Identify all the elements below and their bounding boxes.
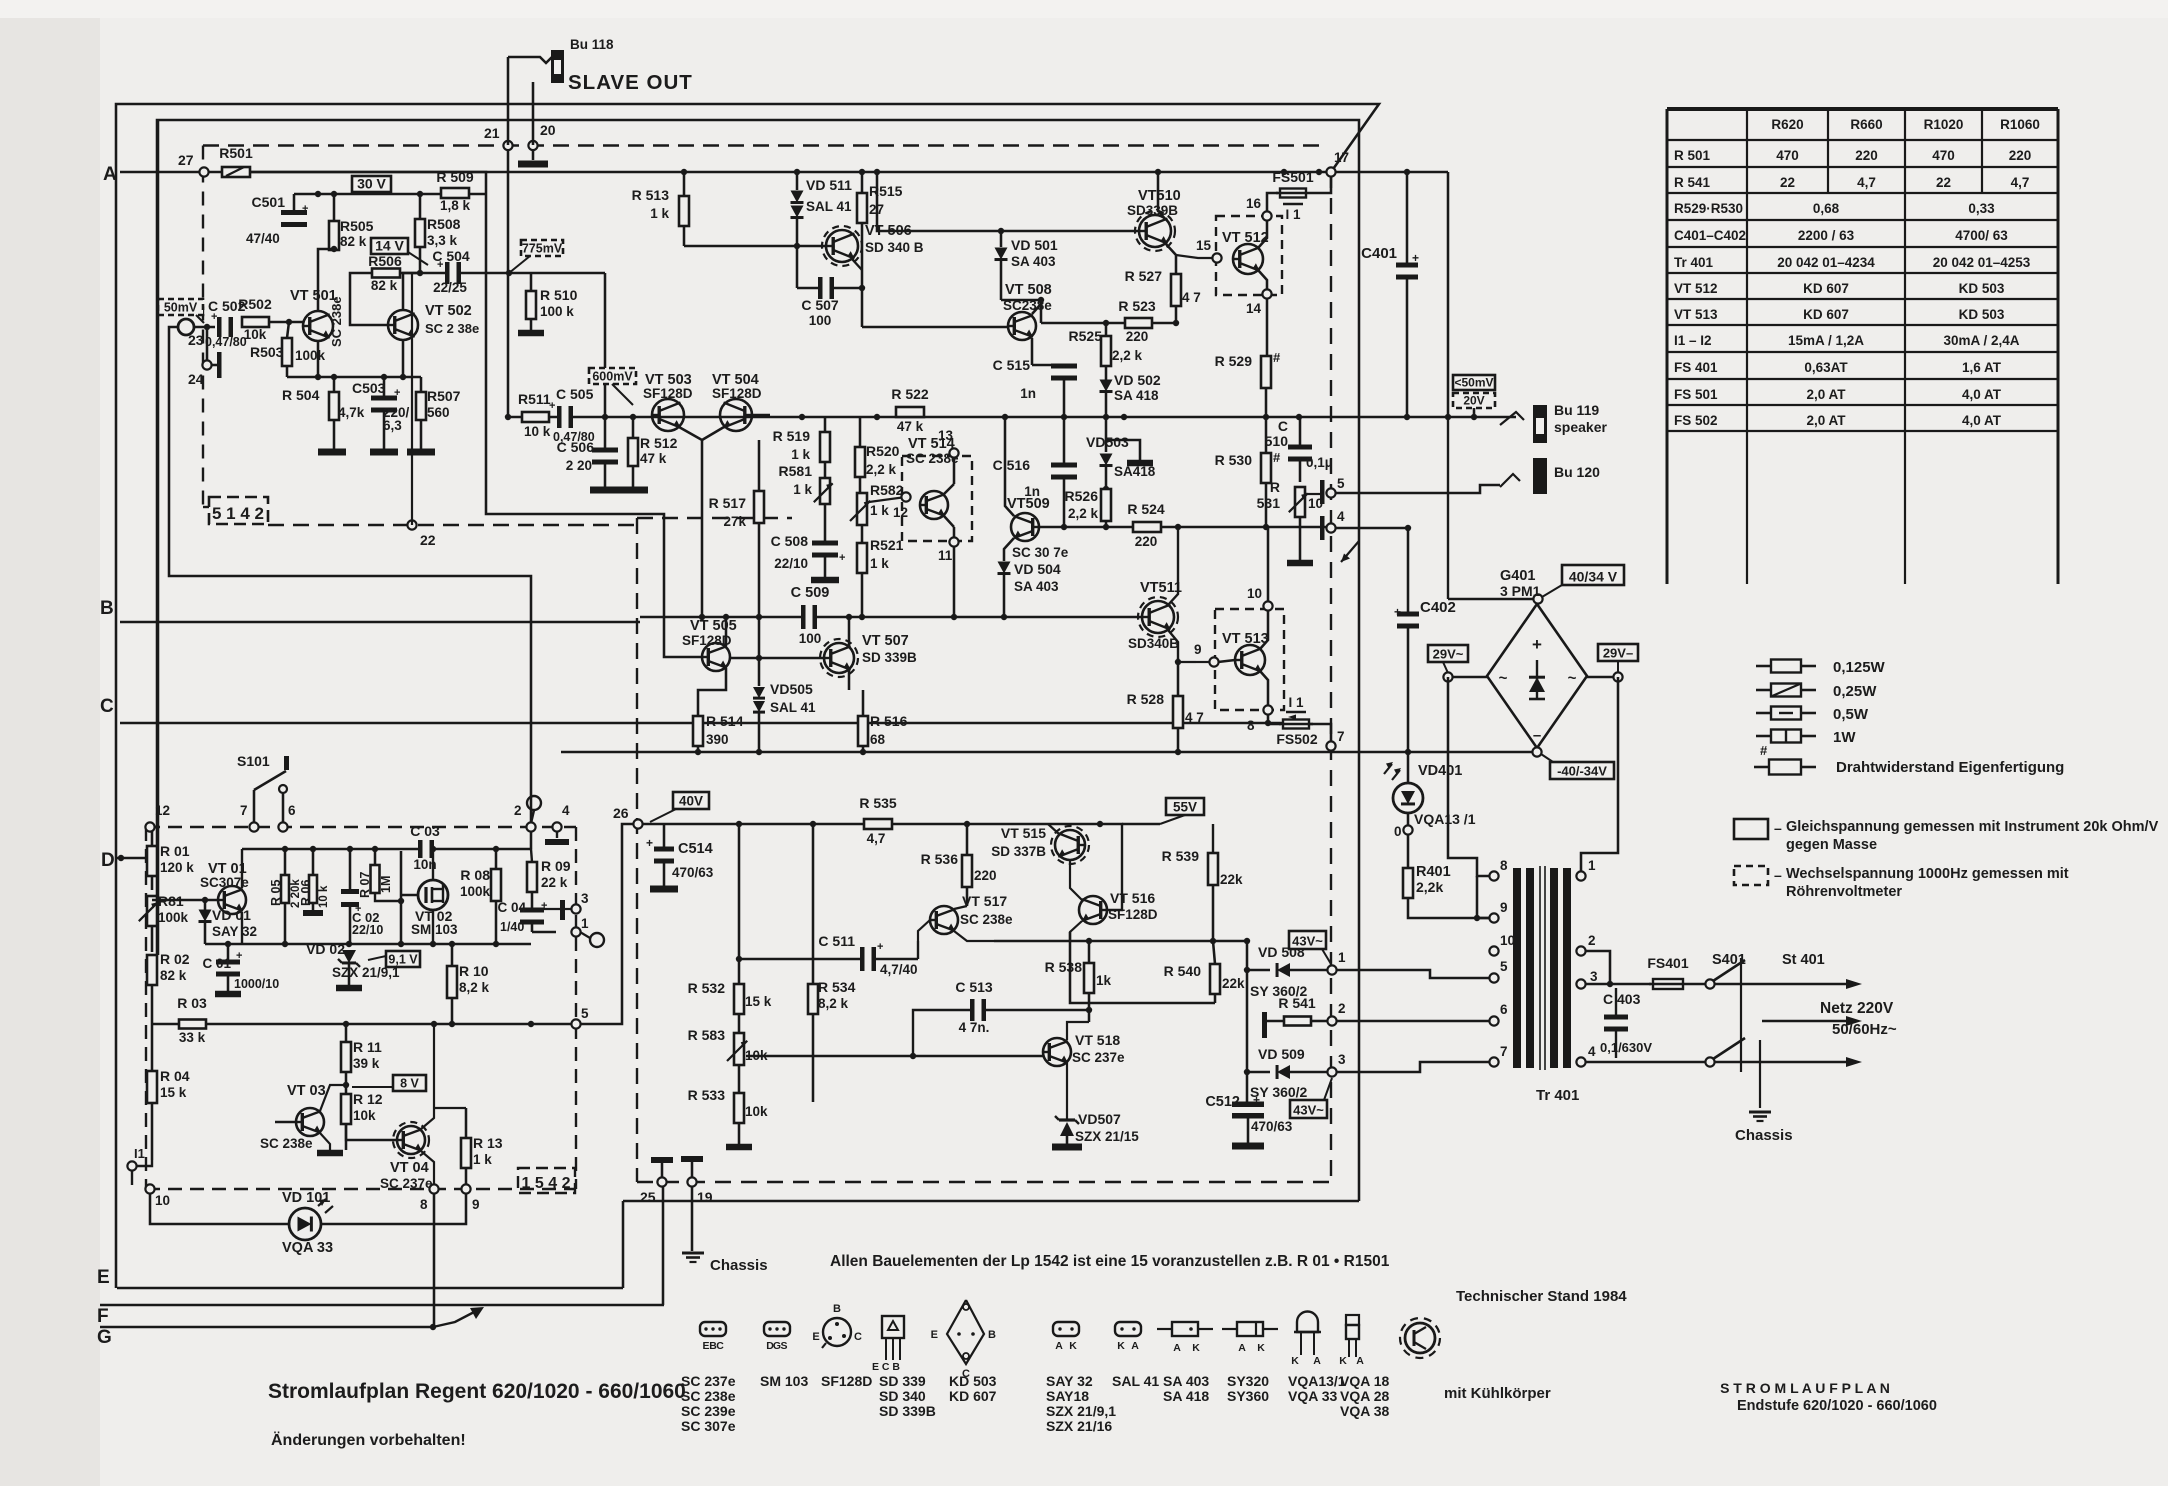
voltage box 50mV at speaker (1453, 375, 1495, 390)
svg-text:24: 24 (188, 371, 204, 387)
node 9 (1209, 657, 1218, 666)
svg-text:SC 2 38e: SC 2 38e (425, 321, 479, 336)
wire A to inner corner (250, 172, 486, 194)
wire VT506 base line (684, 245, 826, 248)
node 27 on bus A (199, 167, 208, 176)
wire node5-1542 route (580, 824, 634, 1024)
svg-text:VT509: VT509 (1007, 496, 1050, 512)
wire R02 bottom (151, 985, 154, 1024)
legend box Wechselspannung dashed (1734, 866, 1768, 885)
svg-text:R 529: R 529 (1215, 353, 1253, 369)
capacitor C403 (1604, 1020, 1628, 1027)
svg-text:A: A (1356, 1355, 1364, 1367)
svg-text:4,0 AT: 4,0 AT (1962, 387, 2002, 402)
wire C513 right (985, 1009, 1089, 1011)
resistor R523 (1125, 318, 1152, 328)
wire VT01 collector top (241, 849, 243, 888)
svg-text:4: 4 (1588, 1044, 1596, 1059)
svg-text:R 07: R 07 (358, 872, 372, 898)
wire x158 frame vertical (157, 120, 160, 955)
svg-text:SA 403: SA 403 (1014, 579, 1059, 594)
svg-text:VT510: VT510 (1138, 188, 1181, 204)
wire node10 to VD101 (150, 1193, 290, 1224)
wire bus B line (120, 621, 640, 624)
svg-text:1/40: 1/40 (500, 920, 524, 934)
node 19 (687, 1177, 696, 1186)
svg-text:39 k: 39 k (353, 1056, 380, 1071)
svg-text:+: + (394, 387, 400, 399)
wire 29V~ left col to pin8 (1448, 677, 1489, 876)
resistor R525 (1101, 336, 1111, 366)
svg-text:0,33: 0,33 (1968, 201, 1995, 216)
svg-text:Wechselspannung 1000Hz gemes: Wechselspannung 1000Hz gemessen mit (1786, 866, 2069, 882)
wire input node23 to feedback route (169, 327, 531, 822)
resistor R510 (526, 291, 536, 319)
node 15 (1212, 253, 1221, 262)
connector pin bar R541 (1262, 1012, 1267, 1038)
capacitor C510 (1288, 450, 1312, 457)
voltage box 775mV dashed (521, 240, 563, 256)
ground under VD507 (1052, 1144, 1082, 1151)
wire F to node25 column (662, 1186, 665, 1305)
wire node21 vertical to main bus (507, 150, 510, 417)
wire main bus y417 (509, 416, 1516, 419)
wire VD01 bottom line (241, 912, 243, 944)
svg-text:-40/-34V: -40/-34V (1557, 764, 1607, 779)
Tr401 pin9 (1489, 913, 1498, 922)
svg-text:SC 237e: SC 237e (681, 1373, 736, 1389)
svg-text:8: 8 (420, 1197, 428, 1212)
svg-text:I 1: I 1 (1285, 207, 1301, 222)
resistor R401 (1403, 868, 1413, 898)
svg-text:22k: 22k (1222, 976, 1245, 991)
svg-text:VT 515: VT 515 (1001, 825, 1046, 841)
svg-text:SZX 21/15: SZX 21/15 (1075, 1129, 1139, 1144)
svg-text:VT 513: VT 513 (1674, 307, 1718, 322)
voltage box 9,1V (386, 951, 420, 967)
svg-text:SC 238e: SC 238e (681, 1388, 736, 1404)
wire Bu118 jack tip to node21 column (508, 57, 552, 63)
svg-text:VT 04: VT 04 (390, 1160, 429, 1176)
wire VT04 collector to R13 (434, 1107, 466, 1109)
switch S401 upper blade (1713, 960, 1745, 981)
wire second frame line (157, 120, 1359, 955)
wire 40V rail (638, 823, 1100, 826)
resistor R529 (1261, 356, 1271, 388)
svg-text:R: R (1270, 479, 1280, 495)
svg-text:R 513: R 513 (632, 187, 670, 203)
voltage box 40/34V (1562, 565, 1624, 585)
wire pin9 link (1477, 917, 1489, 920)
board 55xx dashed bottom edge (637, 1181, 1331, 1183)
svg-text:FS 502: FS 502 (1674, 413, 1718, 428)
diode VD507 zener (1060, 1122, 1074, 1136)
svg-text:4 7n.: 4 7n. (959, 1020, 990, 1035)
svg-text:100 k: 100 k (540, 304, 574, 319)
svg-text:C 515: C 515 (993, 357, 1031, 373)
wire zener line y944 (205, 943, 531, 946)
wire VT506 emitter down (852, 259, 862, 270)
wire 40V pointer (650, 809, 676, 822)
svg-text:1M: 1M (379, 876, 393, 893)
svg-text:10k: 10k (353, 1108, 376, 1123)
resistor R535 (864, 819, 892, 829)
wire VD401 column top (1407, 752, 1410, 784)
resistor R516 (858, 716, 868, 746)
voltage box 30V (352, 176, 391, 192)
svg-text:R 02: R 02 (160, 951, 190, 967)
svg-text:R 517: R 517 (709, 495, 747, 511)
svg-text:8,2 k: 8,2 k (459, 980, 490, 995)
node 14 (1262, 289, 1271, 298)
svg-text:R 536: R 536 (921, 851, 959, 867)
wire R540 bottom to VT516 collector (1214, 994, 1217, 1003)
ground under R504 (318, 449, 346, 456)
wire VT504 collector to bus (752, 414, 770, 417)
svg-text:C 516: C 516 (993, 457, 1031, 473)
svg-text:C: C (1278, 418, 1288, 434)
node 9 bottom (461, 1184, 470, 1193)
svg-text:+: + (549, 400, 555, 412)
svg-text:–: – (1774, 820, 1782, 836)
node 10 (1263, 601, 1272, 610)
svg-text:22/10: 22/10 (774, 556, 808, 571)
svg-text:SY320: SY320 (1227, 1373, 1269, 1389)
svg-text:VD 511: VD 511 (806, 177, 852, 193)
wire bus C line (120, 722, 1283, 725)
svg-text:R 533: R 533 (688, 1087, 726, 1103)
svg-text:R515: R515 (869, 183, 903, 199)
node 0 (1407, 813, 1410, 826)
wire node 24 branch (206, 327, 209, 365)
wire VT02 drain up (432, 849, 434, 880)
connector pin bar at node4 (1320, 516, 1325, 540)
svg-text:47 k: 47 k (897, 419, 924, 434)
connector pin bar at node5 (1320, 480, 1325, 504)
svg-text:SD339B: SD339B (1127, 203, 1178, 218)
wire VT03 emitter (320, 1133, 330, 1150)
svg-text:Änderungen vorbehalten!: Änderungen vorbehalten! (271, 1431, 466, 1449)
svg-text:22/25: 22/25 (433, 280, 467, 295)
capacitor C506 (592, 453, 618, 460)
svg-text:0,25W: 0,25W (1833, 683, 1877, 700)
svg-text:1: 1 (581, 916, 589, 931)
svg-text:+: + (437, 259, 443, 271)
label I1 above FS502 (1286, 711, 1306, 714)
wire VT511 collector down (1168, 630, 1178, 658)
svg-text:23: 23 (188, 332, 204, 348)
svg-text:R529·R530: R529·R530 (1674, 201, 1743, 216)
Tr401 pin6 (1489, 1016, 1498, 1025)
svg-text:2,0 AT: 2,0 AT (1806, 387, 1846, 402)
wire node20 ground stem (532, 150, 535, 160)
node 12 on VT514 box (901, 492, 910, 501)
svg-text:1k: 1k (1096, 973, 1112, 988)
svg-text:R 523: R 523 (1118, 298, 1156, 314)
svg-text:1 k: 1 k (793, 482, 812, 497)
svg-text:47/40: 47/40 (246, 231, 280, 246)
board 55xx dashed right edge (1330, 172, 1332, 1182)
resistor R524 (1133, 522, 1161, 532)
wire FS502 to node7 (1309, 724, 1331, 741)
resistor R12 (341, 1094, 351, 1124)
svg-text:SA 418: SA 418 (1163, 1388, 1209, 1404)
Tr401 pin7 (1489, 1057, 1498, 1066)
svg-text:2,2 k: 2,2 k (1068, 506, 1099, 521)
svg-text:30 V: 30 V (357, 176, 386, 192)
svg-text:B: B (988, 1329, 996, 1341)
ground under R510 (518, 330, 544, 337)
svg-text:#: # (1273, 450, 1281, 465)
legend resistor 0,125W (1756, 665, 1771, 668)
capacitor C508 (812, 546, 838, 553)
wire 30V-rail feedback to VT505 (486, 194, 676, 657)
svg-text:3: 3 (1590, 969, 1598, 984)
legend resistor 0,5W (1756, 712, 1771, 715)
svg-text:VT 516: VT 516 (1110, 890, 1155, 906)
svg-text:4700/ 63: 4700/ 63 (1955, 228, 2008, 243)
svg-text:Drahtwiderstand Eigenfertigung: Drahtwiderstand Eigenfertigung (1836, 759, 2064, 776)
resistor R06 (309, 875, 317, 903)
resistor R506 (372, 269, 400, 278)
wire R506 left to VT502 base (350, 273, 389, 325)
transistor VT513 (1235, 645, 1265, 675)
label I1 under FS501 (1283, 203, 1303, 206)
svg-text:VT 513: VT 513 (1222, 631, 1269, 647)
svg-text:R 03: R 03 (177, 995, 207, 1011)
wire VT513 emitter to node8 (1260, 671, 1268, 706)
svg-text:SZX 21/9,1: SZX 21/9,1 (1046, 1403, 1116, 1419)
ground under R507 (407, 449, 435, 456)
legend resistor 0,25W (1756, 689, 1771, 692)
ground under C01 (215, 991, 241, 998)
svg-text:15 k: 15 k (160, 1085, 187, 1100)
wire node22 vertical link (411, 273, 413, 525)
svg-text:10k: 10k (244, 327, 267, 342)
svg-text:5 1 4 2: 5 1 4 2 (212, 504, 264, 523)
svg-text:R 527: R 527 (1125, 268, 1163, 284)
voltage box 20V dashed (1453, 393, 1495, 408)
svg-text:4,7k: 4,7k (338, 405, 365, 420)
wire node3 bar link (537, 908, 560, 910)
wire VD101 to node9 col (321, 1193, 466, 1224)
switch S401 lower blade (1713, 1038, 1745, 1059)
svg-text:5: 5 (1500, 959, 1508, 974)
svg-text:Technischer Stand 1984: Technischer Stand 1984 (1456, 1288, 1627, 1305)
svg-text:15 k: 15 k (745, 994, 772, 1009)
voltage box 29V~ left (1428, 645, 1468, 662)
svg-text:Bu 120: Bu 120 (1554, 464, 1600, 480)
svg-text:50mV: 50mV (164, 301, 198, 315)
bridge rectifier G401 diamond (1487, 604, 1587, 748)
svg-text:R 539: R 539 (1162, 848, 1200, 864)
svg-text:510: 510 (1265, 433, 1289, 449)
svg-text:R 583: R 583 (688, 1027, 726, 1043)
resistor R540 (1210, 964, 1220, 994)
svg-text:C 505: C 505 (556, 386, 594, 402)
svg-text:R 08: R 08 (460, 867, 490, 883)
capacitor C401 (1396, 268, 1418, 275)
svg-text:R1060: R1060 (2000, 117, 2040, 132)
svg-text:R503: R503 (250, 344, 284, 360)
wire node0 to R401 (1407, 834, 1410, 868)
svg-text:470/63: 470/63 (1251, 1119, 1293, 1134)
svg-text:R 535: R 535 (859, 795, 897, 811)
svg-text:–: – (1774, 867, 1782, 883)
wire VT03 base (275, 1121, 296, 1124)
legend package SAL41 (1115, 1322, 1141, 1336)
legend package SD339 TO126 (882, 1316, 904, 1338)
wire C504 right along y273 (459, 272, 605, 275)
svg-text:F: F (97, 1306, 109, 1327)
wire R529 to bus (1265, 388, 1268, 417)
svg-text:220: 220 (1126, 329, 1149, 344)
resistor R539 (1208, 853, 1218, 885)
node 22 on 5142 bottom (407, 520, 416, 529)
svg-text:SY360: SY360 (1227, 1388, 1269, 1404)
node 13 on VT514 box (949, 448, 958, 457)
svg-text:E: E (931, 1329, 938, 1341)
voltage box 43V~ upper (1289, 931, 1326, 949)
wire R534 bottom (812, 1014, 815, 1102)
svg-text:SC 238e: SC 238e (329, 296, 344, 347)
svg-text:C 506: C 506 (557, 439, 595, 455)
svg-text:<50mV: <50mV (1454, 376, 1493, 390)
wire VT516 collector up (1070, 921, 1082, 940)
board 5142 label box (209, 497, 268, 524)
wire input to C502 (194, 326, 215, 329)
svg-text:40V: 40V (679, 794, 703, 809)
wire node2 to Tr pin6 (1336, 1020, 1489, 1023)
svg-text:100k: 100k (460, 884, 491, 899)
svg-text:0,125W: 0,125W (1833, 659, 1886, 676)
wire C04 to node1 area (532, 931, 556, 933)
dashed box VT512 (1216, 216, 1282, 295)
resistor R13 (461, 1138, 471, 1168)
svg-text:C: C (854, 1331, 862, 1343)
svg-text:43V~: 43V~ (1292, 934, 1323, 949)
svg-text:2 20: 2 20 (566, 458, 592, 473)
ground under R06 (303, 910, 323, 916)
svg-text:SAY 32: SAY 32 (212, 924, 257, 939)
wire R05 stems (284, 849, 287, 875)
svg-text:R520: R520 (866, 443, 900, 459)
svg-text:C401: C401 (1361, 245, 1397, 262)
Tr401 pin1 (1576, 871, 1585, 880)
svg-text:Chassis: Chassis (710, 1257, 768, 1274)
svg-text:4,7/40: 4,7/40 (880, 962, 918, 977)
svg-text:R 12: R 12 (353, 1091, 383, 1107)
svg-text:1 k: 1 k (791, 447, 810, 462)
wire VT513 collector to node10 (1260, 610, 1268, 649)
capacitor C504 (450, 262, 457, 284)
svg-text:C 03: C 03 (410, 823, 440, 839)
board 1542 dashed bottom edge (146, 1188, 576, 1190)
svg-text:VQA 18: VQA 18 (1340, 1373, 1389, 1389)
svg-text:I1 – I2: I1 – I2 (1674, 333, 1712, 348)
transistor VT501 (303, 311, 333, 341)
ground at node 4 top (545, 839, 569, 845)
capacitor C02 (341, 894, 359, 902)
svg-text:SAL 41: SAL 41 (806, 199, 852, 214)
svg-text:Röhrenvoltmeter: Röhrenvoltmeter (1786, 884, 1902, 900)
wire node4 right (1335, 527, 1408, 530)
diode VD509 (1247, 1071, 1270, 1074)
wire R08 stems (495, 849, 498, 869)
wire R506 right to C504 (400, 272, 447, 275)
wire 8V pointer (352, 1086, 393, 1088)
resistor R528 (1173, 696, 1183, 728)
wire R517 top (758, 440, 761, 491)
wire 43V~ pointer to node3 (1324, 1078, 1332, 1100)
board 1542 dashed left edge (145, 827, 147, 1189)
svg-text:R 516: R 516 (870, 713, 908, 729)
resistor R05 (281, 875, 289, 903)
transistor VT514 (920, 491, 948, 519)
wire 29V~ box stem left (1443, 662, 1448, 673)
wire Bu118 sleeve down to node 20 (532, 82, 535, 145)
svg-text:+: + (1412, 251, 1419, 265)
resistor R541 (1267, 1020, 1284, 1023)
svg-text:K: K (1291, 1355, 1299, 1367)
svg-text:1 k: 1 k (650, 206, 669, 221)
svg-text:SD 339: SD 339 (879, 1373, 926, 1389)
svg-text:St 401: St 401 (1782, 952, 1825, 968)
svg-text:8: 8 (1500, 858, 1508, 873)
ground right of node24 (211, 364, 219, 367)
node 1 (1327, 965, 1336, 974)
wire VT02 source down (432, 910, 434, 944)
svg-text:0: 0 (1394, 824, 1402, 839)
svg-text:R 538: R 538 (1045, 959, 1083, 975)
svg-text:SD 339B: SD 339B (879, 1403, 936, 1419)
wire VT509 emitter to VD504 (1004, 538, 1014, 561)
capacitor C503 (371, 401, 397, 408)
svg-text:6: 6 (1500, 1002, 1508, 1017)
wire VT507 collector up (848, 617, 851, 646)
voltage box 29V- right (1598, 644, 1638, 661)
svg-text:7: 7 (1500, 1044, 1508, 1059)
svg-text:C 04: C 04 (497, 900, 526, 915)
svg-text:R 528: R 528 (1127, 691, 1165, 707)
svg-text:Tr 401: Tr 401 (1674, 255, 1714, 270)
node 20 circle (528, 141, 537, 150)
node 29V right (1613, 672, 1622, 681)
legend LED VQA18 (1346, 1315, 1359, 1325)
wire Bu120 link from node5 (1335, 485, 1500, 493)
node 10 (145, 1184, 154, 1193)
svg-text:470: 470 (1776, 148, 1799, 163)
diode VD511 (796, 172, 799, 190)
svg-text:VD 504: VD 504 (1014, 561, 1061, 577)
diode VD505 (758, 617, 761, 686)
svg-text:R1020: R1020 (1924, 117, 1964, 132)
resistor R513 (679, 196, 689, 226)
wire 29V right down to Tr401 pin1 (1581, 677, 1618, 872)
svg-text:R 04: R 04 (160, 1068, 190, 1084)
svg-text:A: A (1173, 1342, 1181, 1354)
svg-text:SF128D: SF128D (682, 633, 732, 648)
transistor VT517 (930, 906, 958, 934)
svg-text:VD507: VD507 (1078, 1111, 1121, 1127)
legend diode SA403 (1157, 1328, 1172, 1330)
svg-text:2,2 k: 2,2 k (1112, 348, 1143, 363)
node G401 top (1533, 594, 1542, 603)
wire pin3 to FS401 (1610, 983, 1651, 986)
diode VD501 (1000, 231, 1003, 247)
svg-text:SF128D: SF128D (643, 386, 693, 401)
legend resistor Drahtwiderstand (1754, 766, 1769, 769)
